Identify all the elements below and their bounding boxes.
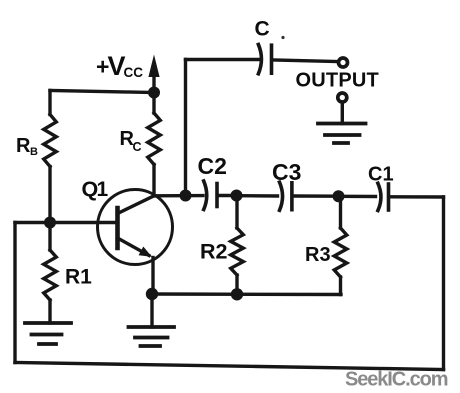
svg-text:OUTPUT: OUTPUT <box>296 70 379 92</box>
wire bottom feedback rail <box>15 363 444 370</box>
svg-text:R: R <box>16 135 31 157</box>
capacitor C1 <box>378 183 389 210</box>
node R3 top junction <box>333 190 345 202</box>
wire Vcc rail horizontal <box>50 91 154 93</box>
ground R1 <box>25 323 71 344</box>
svg-text:B: B <box>30 146 38 158</box>
terminal OUTPUT lower <box>338 93 347 102</box>
wire left vertical rail <box>13 223 16 363</box>
wire C2 to R2 node <box>219 194 237 197</box>
svg-text:C3: C3 <box>272 159 301 185</box>
wire C3 to R3 node <box>294 194 339 198</box>
node base junction <box>44 217 56 229</box>
wire R3 node to C1 <box>339 195 376 199</box>
capacitor C2 <box>204 181 217 210</box>
node R2 top junction <box>231 190 243 202</box>
wire emitter rail to R3 <box>152 292 341 296</box>
wire base lead <box>15 221 118 224</box>
wire top horizontal to C <box>186 58 259 61</box>
resistor R2 <box>231 196 244 295</box>
svg-text:CC: CC <box>124 65 144 80</box>
resistor RB <box>44 91 57 223</box>
wire lower terminal to ground <box>341 103 344 124</box>
svg-text:C1: C1 <box>368 164 394 186</box>
label RB <box>16 135 38 158</box>
node emitter junction <box>146 288 158 300</box>
node R2 bottom junction <box>231 288 243 300</box>
ground output <box>318 124 366 144</box>
node collector tap junction <box>180 190 192 202</box>
svg-text:R1: R1 <box>65 266 92 289</box>
svg-text:R3: R3 <box>305 244 331 266</box>
node Vcc junction <box>148 87 160 99</box>
wire emitter to ground <box>150 294 153 327</box>
terminal OUTPUT upper <box>339 58 348 67</box>
resistor R1 <box>44 223 57 324</box>
label +Vcc <box>96 51 143 81</box>
svg-text:R2: R2 <box>200 240 228 264</box>
power +Vcc arrow <box>148 55 159 93</box>
resistor R3 <box>334 196 347 294</box>
svg-text:C2: C2 <box>198 153 227 179</box>
svg-text:C: C <box>133 140 142 154</box>
svg-text:C: C <box>255 18 270 41</box>
wire C to output terminal <box>274 60 337 62</box>
wire C1 to right rail <box>391 195 444 199</box>
wire right vertical rail <box>442 197 445 370</box>
wire riser to output coupling cap <box>184 60 187 196</box>
capacitor C3 <box>280 182 292 210</box>
transistor Q1 <box>98 190 173 295</box>
svg-text:1: 1 <box>97 178 109 201</box>
wire R2 node to C3 <box>237 194 278 198</box>
ground emitter <box>129 327 175 346</box>
resistor RC <box>148 93 161 197</box>
capacitor C <box>258 45 271 74</box>
label RC <box>120 128 142 154</box>
svg-text:SeekIC.com: SeekIC.com <box>345 369 448 391</box>
wire collector to C2 <box>154 194 203 198</box>
